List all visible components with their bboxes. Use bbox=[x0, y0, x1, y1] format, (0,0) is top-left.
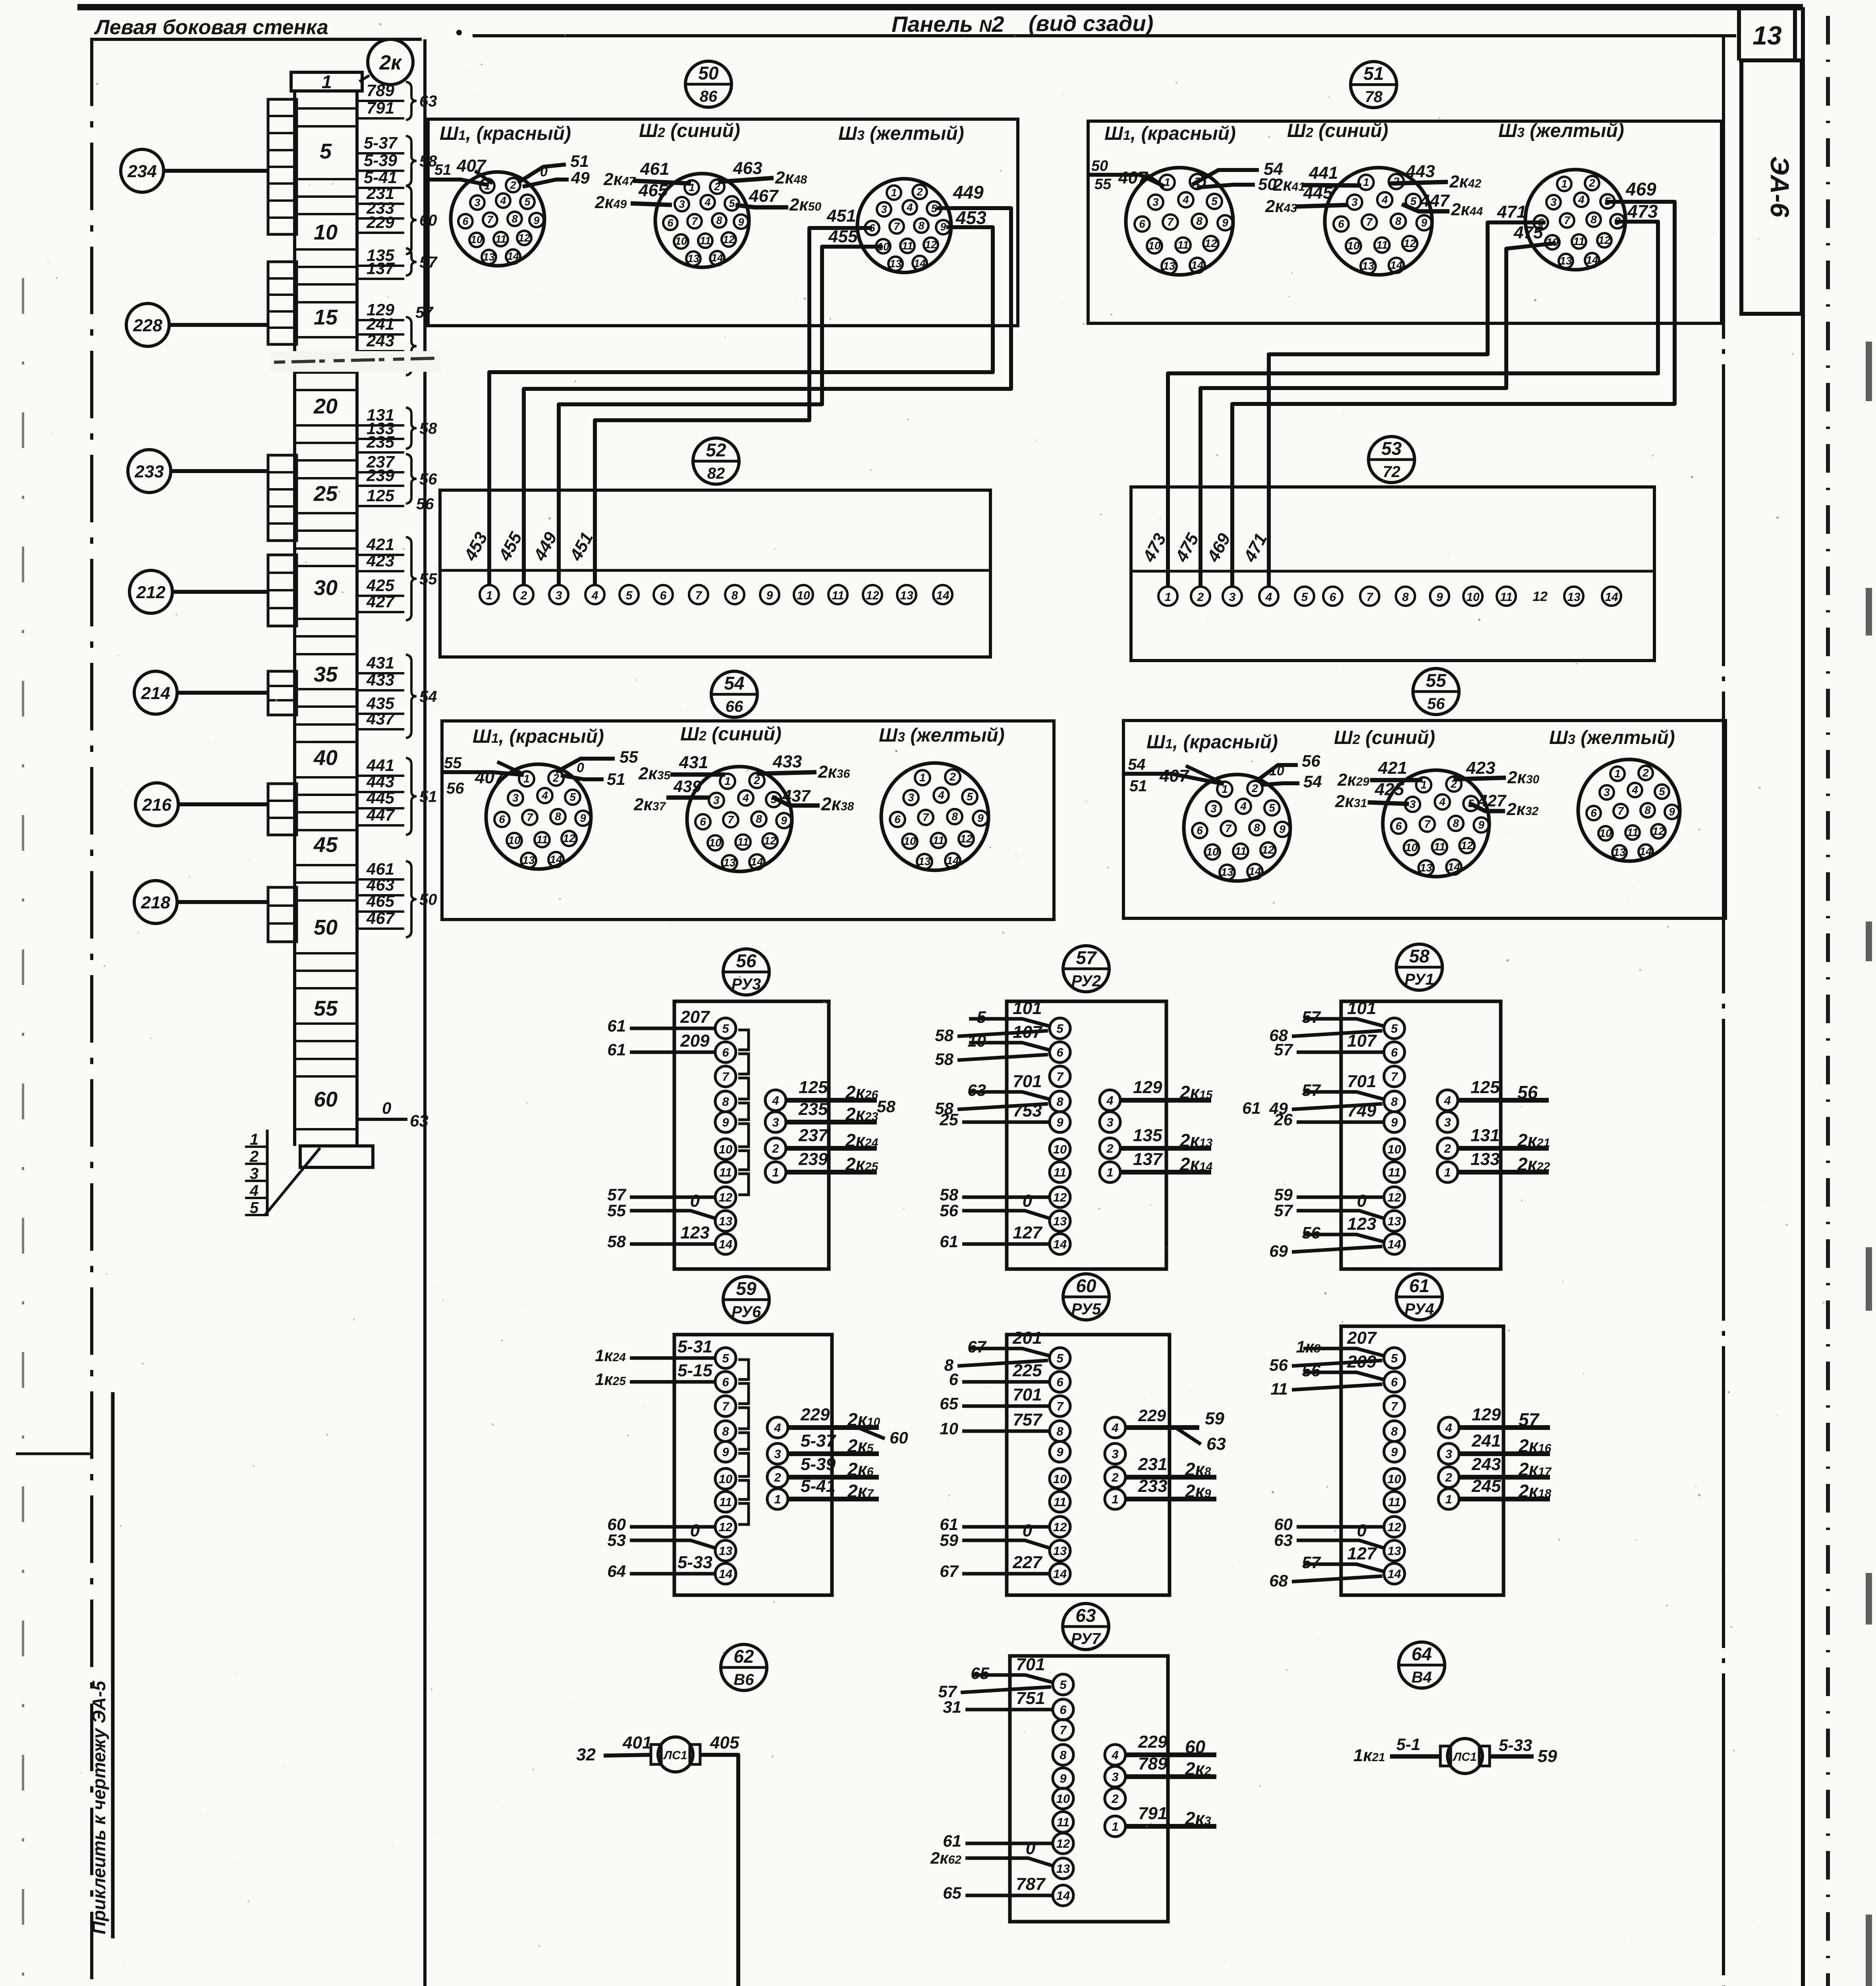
ladder group bracket 56 bbox=[406, 454, 417, 504]
ladder wire label 129 bbox=[358, 300, 404, 320]
svg-text:13: 13 bbox=[719, 1214, 732, 1228]
svg-text:0: 0 bbox=[540, 164, 548, 180]
svg-text:6: 6 bbox=[1056, 1375, 1063, 1389]
terminal 5 of strip 52 bbox=[620, 585, 639, 604]
svg-text:7: 7 bbox=[1167, 216, 1174, 228]
svg-text:60: 60 bbox=[1185, 1737, 1206, 1757]
wire to pin 5 of РУ5 (60) bbox=[944, 1328, 1049, 1374]
terminal 11 of strip 53 bbox=[1497, 587, 1516, 606]
terminal 13 of strip 52 bbox=[897, 585, 916, 604]
svg-text:РУ3: РУ3 bbox=[731, 976, 761, 993]
svg-text:0: 0 bbox=[1357, 1191, 1367, 1211]
ladder group bracket 50 bbox=[406, 861, 417, 937]
svg-text:13: 13 bbox=[687, 253, 699, 265]
wire to pin 5 of РУ1 (58) bbox=[1269, 999, 1383, 1045]
panel box group 50 bbox=[428, 119, 1018, 326]
svg-text:701: 701 bbox=[1013, 1385, 1042, 1404]
svg-text:13: 13 bbox=[1056, 1862, 1070, 1876]
svg-text:13: 13 bbox=[1163, 260, 1175, 272]
svg-text:9: 9 bbox=[977, 812, 984, 824]
svg-text:3: 3 bbox=[1445, 1447, 1452, 1461]
ladder wire label 467 bbox=[358, 909, 404, 929]
svg-text:57: 57 bbox=[1302, 1553, 1321, 1572]
ladder group bracket 51 bbox=[406, 758, 417, 835]
pin 8 of РУ3 (56) bbox=[715, 1091, 736, 1112]
svg-text:6: 6 bbox=[1391, 1045, 1398, 1059]
svg-text:129: 129 bbox=[1133, 1078, 1162, 1097]
wire to pin 13 of РУ1 (58) bbox=[1274, 1191, 1385, 1220]
wire stub Ш1-54 diag bbox=[497, 762, 523, 774]
ladder wire label 231 bbox=[358, 184, 404, 204]
ladder bottom box bbox=[300, 1146, 373, 1167]
svg-text:207: 207 bbox=[1347, 1328, 1377, 1348]
svg-text:11: 11 bbox=[932, 834, 944, 846]
svg-text:8: 8 bbox=[756, 813, 762, 825]
svg-text:234: 234 bbox=[127, 162, 156, 181]
svg-text:14: 14 bbox=[1053, 1237, 1067, 1251]
terminal 8 of strip 53 bbox=[1396, 587, 1415, 606]
wire 425 2K31 to Ш2-55 pin3 bbox=[1335, 780, 1409, 811]
pin 13 of РУ7 (63) bbox=[1053, 1858, 1073, 1879]
pin 3 of РУ5 (60) bbox=[1105, 1443, 1125, 1464]
wire 455 from Ш3-50 pin10 to strip52-2 bbox=[559, 247, 883, 585]
svg-text:58: 58 bbox=[607, 1232, 626, 1251]
svg-text:791: 791 bbox=[1138, 1804, 1167, 1823]
svg-text:57: 57 bbox=[1302, 1081, 1321, 1099]
svg-text:1: 1 bbox=[1363, 176, 1369, 188]
svg-text:РУ7: РУ7 bbox=[1071, 1630, 1101, 1648]
svg-text:5: 5 bbox=[626, 589, 633, 602]
pin 10 of РУ2 (57) bbox=[1050, 1139, 1070, 1159]
ladder wire label 425 bbox=[358, 576, 404, 596]
svg-text:10: 10 bbox=[940, 1419, 958, 1438]
svg-text:7: 7 bbox=[1225, 822, 1232, 835]
ladder rungs bbox=[295, 91, 357, 1129]
node 50/86 bbox=[685, 61, 731, 107]
pin 2 of РУ5 (60) bbox=[1105, 1467, 1125, 1488]
wire from pin 2 of РУ6 (59) bbox=[787, 1455, 879, 1480]
svg-text:421: 421 bbox=[1378, 758, 1407, 778]
wire to pin 14 of РУ1 (58) bbox=[1269, 1214, 1383, 1260]
pin 7 of РУ3 (56) bbox=[715, 1066, 736, 1087]
svg-text:14: 14 bbox=[1388, 1567, 1401, 1581]
ladder wire label 441 bbox=[358, 756, 404, 776]
svg-text:12: 12 bbox=[1598, 234, 1611, 246]
svg-text:Приклеить к чертежу ЭА-5: Приклеить к чертежу ЭА-5 bbox=[89, 1680, 109, 1934]
svg-text:9: 9 bbox=[1391, 1115, 1398, 1129]
svg-text:13: 13 bbox=[1752, 21, 1781, 50]
svg-text:3: 3 bbox=[1444, 1115, 1451, 1129]
svg-text:57: 57 bbox=[1274, 1040, 1293, 1059]
terminal 9 of strip 53 bbox=[1430, 587, 1449, 606]
wire to pin 6 of РУ5 (60) bbox=[949, 1361, 1049, 1389]
svg-text:14: 14 bbox=[1056, 1889, 1070, 1903]
svg-text:789: 789 bbox=[367, 81, 395, 100]
svg-text:12: 12 bbox=[1053, 1190, 1067, 1204]
wire to pin 12 of РУ1 (58) bbox=[1274, 1185, 1383, 1204]
svg-text:3: 3 bbox=[512, 792, 519, 804]
connector Ш1 of 54 bbox=[486, 764, 591, 869]
svg-text:11: 11 bbox=[1057, 1815, 1069, 1829]
pin 9 of РУ3 (56) bbox=[715, 1112, 736, 1132]
ladder wire label 463 bbox=[358, 875, 404, 895]
svg-text:9: 9 bbox=[738, 216, 744, 228]
inner frame right vertical bbox=[1722, 37, 1725, 1986]
terminal 5 of strip 53 bbox=[1295, 587, 1314, 606]
svg-text:61: 61 bbox=[1409, 1275, 1429, 1296]
svg-text:13: 13 bbox=[1388, 1544, 1401, 1558]
svg-text:31: 31 bbox=[943, 1698, 961, 1716]
wire cable 233 to ladder bbox=[171, 469, 268, 473]
wire 437 Ш2-54 pin5 to 2K38 bbox=[772, 786, 854, 814]
terminal 11 of strip 52 bbox=[828, 585, 847, 604]
svg-text:12: 12 bbox=[1388, 1520, 1401, 1534]
svg-text:13: 13 bbox=[1388, 1214, 1401, 1228]
svg-text:60: 60 bbox=[890, 1428, 908, 1447]
svg-text:13: 13 bbox=[719, 1544, 732, 1558]
pin 12 of РУ1 (58) bbox=[1384, 1187, 1405, 1207]
pin 6 of РУ7 (63) bbox=[1053, 1699, 1073, 1720]
ladder group bracket 58 bbox=[406, 136, 417, 186]
wire from pin 1 of РУ6 (59) bbox=[787, 1476, 879, 1501]
ladder group bracket bbox=[406, 317, 417, 375]
wire 427 Ш2-55 pin5 to 2K32 bbox=[1469, 791, 1538, 819]
ladder wire label 447 bbox=[358, 806, 404, 825]
svg-text:8: 8 bbox=[952, 810, 958, 823]
svg-text:471: 471 bbox=[1497, 202, 1526, 222]
wire to pin 13 of РУ2 (57) bbox=[940, 1191, 1050, 1220]
ladder wire label 423 bbox=[358, 551, 404, 571]
svg-text:449: 449 bbox=[953, 182, 984, 203]
svg-text:437: 437 bbox=[782, 786, 811, 805]
wire to pin 9 of РУ2 (57) bbox=[939, 1101, 1049, 1129]
wire from pin 2 of РУ5 (60) bbox=[1124, 1455, 1216, 1480]
wire second to pin 8 of РУ1 (58) bbox=[1292, 1104, 1382, 1109]
pin 8 of РУ4 (61) bbox=[1384, 1421, 1405, 1441]
svg-text:6: 6 bbox=[722, 1045, 729, 1059]
svg-text:12: 12 bbox=[723, 234, 735, 245]
ladder wire label 229 bbox=[358, 213, 404, 233]
pin 12 of РУ5 (60) bbox=[1050, 1517, 1070, 1537]
svg-text:461: 461 bbox=[640, 159, 669, 179]
svg-text:133: 133 bbox=[1471, 1149, 1500, 1169]
left margin dash-dot bbox=[22, 278, 24, 1986]
svg-text:69: 69 bbox=[1269, 1242, 1288, 1260]
svg-text:10: 10 bbox=[797, 589, 810, 602]
svg-text:9: 9 bbox=[1279, 823, 1285, 835]
svg-text:5-31: 5-31 bbox=[677, 1337, 712, 1356]
wire from pin 3 of РУ6 (59) bbox=[787, 1431, 879, 1456]
svg-text:3: 3 bbox=[1550, 196, 1557, 208]
wire from pin 3 of РУ4 (61) bbox=[1458, 1431, 1552, 1456]
svg-text:8: 8 bbox=[511, 213, 517, 225]
svg-text:11: 11 bbox=[1434, 840, 1445, 853]
svg-text:463: 463 bbox=[733, 158, 762, 178]
svg-text:9: 9 bbox=[1056, 1445, 1063, 1459]
connector Ш3 of 51 bbox=[1525, 170, 1625, 270]
wire to pin 13 of РУ5 (60) bbox=[940, 1521, 1050, 1549]
wire 407 to Ш1-50 pin1 bbox=[428, 180, 489, 185]
pin 9 of РУ4 (61) bbox=[1384, 1441, 1405, 1462]
sheet number box 13 bbox=[1739, 7, 1795, 60]
svg-text:0: 0 bbox=[577, 760, 584, 775]
pin 14 of РУ1 (58) bbox=[1384, 1234, 1405, 1254]
ladder wire label 445 bbox=[358, 788, 404, 808]
svg-text:4: 4 bbox=[1578, 193, 1585, 206]
svg-text:1: 1 bbox=[1614, 767, 1621, 780]
wire stub Ш1-51 diag bbox=[1147, 175, 1163, 186]
svg-text:2: 2 bbox=[1197, 591, 1204, 604]
svg-text:63: 63 bbox=[1274, 1531, 1293, 1549]
svg-text:10: 10 bbox=[1056, 1792, 1070, 1806]
svg-text:4: 4 bbox=[938, 789, 944, 801]
pin 13 of РУ6 (59) bbox=[715, 1540, 736, 1561]
svg-text:13: 13 bbox=[723, 856, 736, 869]
svg-text:54: 54 bbox=[1303, 772, 1322, 791]
svg-text:5: 5 bbox=[1211, 195, 1218, 207]
wire cable 212 to ladder bbox=[172, 590, 268, 594]
svg-text:407: 407 bbox=[1118, 168, 1148, 187]
svg-text:2: 2 bbox=[774, 1470, 781, 1484]
wire 467 Ш2-50 pin5 to 2K50 bbox=[735, 186, 821, 214]
svg-text:12: 12 bbox=[866, 589, 879, 602]
svg-text:423: 423 bbox=[366, 551, 394, 570]
ladder wire label 435 bbox=[358, 694, 404, 714]
wire 451 from Ш3-50 pin6 to strip52-4 bbox=[595, 228, 872, 585]
ladder group bracket 58 bbox=[406, 408, 417, 449]
svg-text:14: 14 bbox=[719, 1237, 732, 1251]
terminal ladder 2K top box bbox=[291, 72, 362, 91]
pin 4 of РУ6 (59) bbox=[767, 1417, 788, 1438]
svg-text:5: 5 bbox=[1659, 785, 1665, 798]
pin 9 of РУ1 (58) bbox=[1384, 1112, 1405, 1132]
svg-text:56: 56 bbox=[416, 495, 434, 513]
svg-text:4: 4 bbox=[1265, 591, 1272, 604]
svg-text:123: 123 bbox=[680, 1223, 709, 1242]
svg-text:12: 12 bbox=[1388, 1190, 1401, 1204]
svg-text:82: 82 bbox=[707, 465, 725, 482]
svg-text:10: 10 bbox=[967, 1032, 986, 1050]
svg-text:789: 789 bbox=[1138, 1754, 1168, 1773]
wire from pin 4 of РУ6 (59) bbox=[787, 1405, 880, 1430]
svg-text:209: 209 bbox=[1347, 1352, 1376, 1372]
svg-text:10: 10 bbox=[719, 1472, 732, 1486]
node 55/56 bbox=[1413, 668, 1459, 715]
ladder group bracket 63 bbox=[406, 82, 417, 120]
svg-text:2: 2 bbox=[916, 186, 923, 198]
svg-text:8: 8 bbox=[716, 214, 722, 226]
svg-text:10: 10 bbox=[314, 220, 338, 244]
relay block РУ1 (58) bbox=[1341, 1001, 1501, 1269]
svg-text:Ш2 (синий): Ш2 (синий) bbox=[1287, 120, 1388, 141]
svg-text:60: 60 bbox=[314, 1088, 338, 1111]
wire from pin 2 of РУ4 (61) bbox=[1458, 1455, 1552, 1480]
connector Ш3 of 50 bbox=[857, 179, 951, 272]
wire Ш1-50 pin2 up bbox=[518, 164, 566, 183]
svg-text:9: 9 bbox=[1060, 1772, 1067, 1785]
pin 14 of РУ5 (60) bbox=[1050, 1563, 1070, 1584]
ladder clamp tabs bbox=[268, 262, 297, 344]
svg-text:4: 4 bbox=[1445, 1421, 1452, 1435]
svg-text:3: 3 bbox=[881, 203, 887, 215]
svg-text:7: 7 bbox=[487, 214, 494, 226]
wire 469 from Ш3-51 pin5 to strip53-3 bbox=[1232, 202, 1675, 587]
terminal 1 of strip 52 bbox=[480, 585, 499, 604]
svg-text:14: 14 bbox=[936, 589, 950, 602]
wire Ш1-54 pin2 up bbox=[556, 759, 615, 772]
frame tick left a bbox=[16, 1453, 93, 1455]
pin 14 of РУ4 (61) bbox=[1384, 1563, 1405, 1584]
svg-text:235: 235 bbox=[798, 1099, 828, 1119]
svg-text:14: 14 bbox=[1586, 254, 1598, 266]
wire to pin 14 of РУ6 (59) bbox=[607, 1553, 714, 1580]
pin 10 of РУ6 (59) bbox=[715, 1468, 736, 1489]
terminal 7 of strip 53 bbox=[1360, 587, 1379, 606]
svg-text:7: 7 bbox=[1056, 1070, 1064, 1084]
wire to pin 14 of РУ5 (60) bbox=[940, 1553, 1049, 1580]
svg-text:62: 62 bbox=[733, 1646, 754, 1667]
ladder clamp tabs bbox=[268, 455, 297, 541]
svg-text:7: 7 bbox=[1366, 216, 1373, 228]
svg-text:6: 6 bbox=[1330, 591, 1336, 604]
svg-text:11: 11 bbox=[1573, 235, 1585, 247]
svg-text:10: 10 bbox=[1388, 1142, 1401, 1156]
node 53/72 bbox=[1368, 437, 1415, 483]
svg-text:425: 425 bbox=[1374, 780, 1404, 799]
svg-text:405: 405 bbox=[710, 1733, 739, 1752]
svg-text:9: 9 bbox=[580, 812, 586, 824]
svg-text:2: 2 bbox=[1445, 1470, 1452, 1484]
svg-text:431: 431 bbox=[679, 753, 708, 772]
svg-text:86: 86 bbox=[700, 88, 718, 105]
svg-text:433: 433 bbox=[366, 670, 394, 689]
svg-text:9: 9 bbox=[722, 1115, 729, 1129]
pin 1 of РУ2 (57) bbox=[1100, 1162, 1120, 1182]
svg-text:56: 56 bbox=[1302, 752, 1320, 770]
svg-text:10: 10 bbox=[719, 1142, 732, 1156]
svg-text:231: 231 bbox=[1138, 1455, 1167, 1474]
svg-text:427: 427 bbox=[366, 592, 395, 611]
svg-text:239: 239 bbox=[798, 1149, 828, 1169]
svg-text:431: 431 bbox=[366, 653, 394, 672]
svg-text:20: 20 bbox=[313, 394, 338, 418]
pin 9 of РУ7 (63) bbox=[1053, 1768, 1073, 1789]
svg-text:445: 445 bbox=[366, 788, 395, 807]
svg-text:14: 14 bbox=[1249, 865, 1261, 877]
svg-text:8: 8 bbox=[1391, 1095, 1398, 1109]
svg-text:467: 467 bbox=[749, 186, 779, 206]
svg-text:0: 0 bbox=[690, 1191, 700, 1211]
pin 1 of РУ3 (56) bbox=[765, 1162, 786, 1182]
wire 443 Ш2-51 pin2 to 2K42 bbox=[1390, 162, 1481, 191]
svg-text:64: 64 bbox=[1411, 1644, 1432, 1664]
pin 14 of РУ3 (56) bbox=[715, 1234, 736, 1254]
svg-text:10: 10 bbox=[1388, 1472, 1401, 1486]
svg-text:10: 10 bbox=[508, 834, 521, 846]
pin 1 of РУ1 (58) bbox=[1437, 1162, 1458, 1182]
wire Ш1-55 pin2 up bbox=[1256, 765, 1298, 781]
wire to pin 5 of РУ6 (59) bbox=[595, 1337, 714, 1365]
pin 6 of РУ1 (58) bbox=[1384, 1042, 1405, 1063]
wire to pin 6 of РУ2 (57) bbox=[935, 1022, 1049, 1068]
svg-text:5: 5 bbox=[722, 1022, 729, 1036]
svg-text:135: 135 bbox=[1133, 1126, 1162, 1145]
wire 421 2K29 to Ш2-55 pin1 bbox=[1337, 758, 1422, 790]
svg-text:9: 9 bbox=[1222, 216, 1228, 229]
svg-text:3: 3 bbox=[556, 589, 562, 602]
wire to pin 12 of РУ7 (63) bbox=[943, 1831, 1052, 1850]
wire 407 to Ш1-51 pin1 bbox=[1088, 175, 1164, 186]
svg-text:50: 50 bbox=[314, 916, 338, 939]
svg-text:7: 7 bbox=[1617, 805, 1624, 817]
svg-text:439: 439 bbox=[673, 777, 702, 796]
svg-text:3: 3 bbox=[1409, 798, 1416, 810]
svg-text:6: 6 bbox=[1060, 1703, 1067, 1717]
svg-text:58: 58 bbox=[935, 1026, 953, 1045]
svg-text:11: 11 bbox=[737, 836, 749, 848]
wire from pin 4 of РУ2 (57) bbox=[1119, 1078, 1213, 1103]
signal lamp ЛС1 (62) bbox=[651, 1737, 700, 1772]
svg-text:214: 214 bbox=[141, 684, 170, 703]
pin 5 of РУ3 (56) bbox=[715, 1018, 736, 1039]
connector Ш2 of 51 bbox=[1325, 168, 1432, 275]
svg-text:14: 14 bbox=[719, 1567, 732, 1581]
ladder wire label 427 bbox=[358, 592, 404, 612]
svg-text:1: 1 bbox=[523, 773, 530, 785]
svg-text:5: 5 bbox=[1391, 1022, 1398, 1036]
svg-text:7: 7 bbox=[923, 811, 929, 823]
node 51/78 bbox=[1351, 62, 1397, 108]
svg-text:239: 239 bbox=[366, 466, 395, 485]
svg-text:227: 227 bbox=[1012, 1553, 1043, 1572]
terminal 8 of strip 52 bbox=[725, 585, 744, 604]
wire from pin 1 of РУ2 (57) bbox=[1119, 1149, 1213, 1175]
svg-text:229: 229 bbox=[1138, 1732, 1168, 1752]
wire cable 218 to ladder bbox=[177, 900, 268, 904]
svg-text:1: 1 bbox=[1106, 1165, 1113, 1179]
pin 3 of РУ1 (58) bbox=[1437, 1112, 1458, 1132]
connector Ш3 of 54 bbox=[881, 763, 988, 870]
pin 2 of РУ1 (58) bbox=[1437, 1138, 1458, 1159]
svg-text:10: 10 bbox=[903, 835, 916, 847]
svg-text:423: 423 bbox=[1466, 758, 1495, 778]
wire to pin 5 of РУ7 (63) bbox=[938, 1655, 1052, 1701]
wire from pin 2 of РУ2 (57) bbox=[1119, 1126, 1213, 1151]
svg-text:125: 125 bbox=[1471, 1078, 1500, 1097]
connector Ш2 of 55 bbox=[1383, 770, 1489, 877]
cable 214 bbox=[134, 671, 177, 714]
pin 6 of РУ4 (61) bbox=[1384, 1372, 1405, 1392]
svg-text:63: 63 bbox=[967, 1081, 986, 1099]
svg-text:6: 6 bbox=[1139, 218, 1145, 230]
pin 13 of РУ4 (61) bbox=[1384, 1540, 1405, 1561]
svg-text:2: 2 bbox=[1106, 1142, 1113, 1155]
svg-text:243: 243 bbox=[1471, 1455, 1501, 1474]
svg-text:7: 7 bbox=[728, 813, 734, 826]
svg-text:2: 2 bbox=[1111, 1792, 1118, 1806]
signal lamp ЛС1 (64) bbox=[1440, 1739, 1490, 1773]
node 2K bbox=[368, 39, 413, 85]
svg-text:4: 4 bbox=[742, 792, 749, 804]
wire to pin 5 of РУ2 (57) bbox=[935, 999, 1049, 1045]
terminal 1 of strip 53 bbox=[1158, 587, 1177, 606]
wire from pin 3 of РУ3 (56) bbox=[785, 1099, 878, 1124]
svg-text:53: 53 bbox=[1381, 438, 1402, 459]
svg-text:9: 9 bbox=[1669, 806, 1675, 818]
wire to pin 14 of РУ7 (63) bbox=[943, 1874, 1052, 1902]
svg-text:15: 15 bbox=[314, 305, 338, 329]
pin 10 of РУ4 (61) bbox=[1384, 1468, 1405, 1489]
